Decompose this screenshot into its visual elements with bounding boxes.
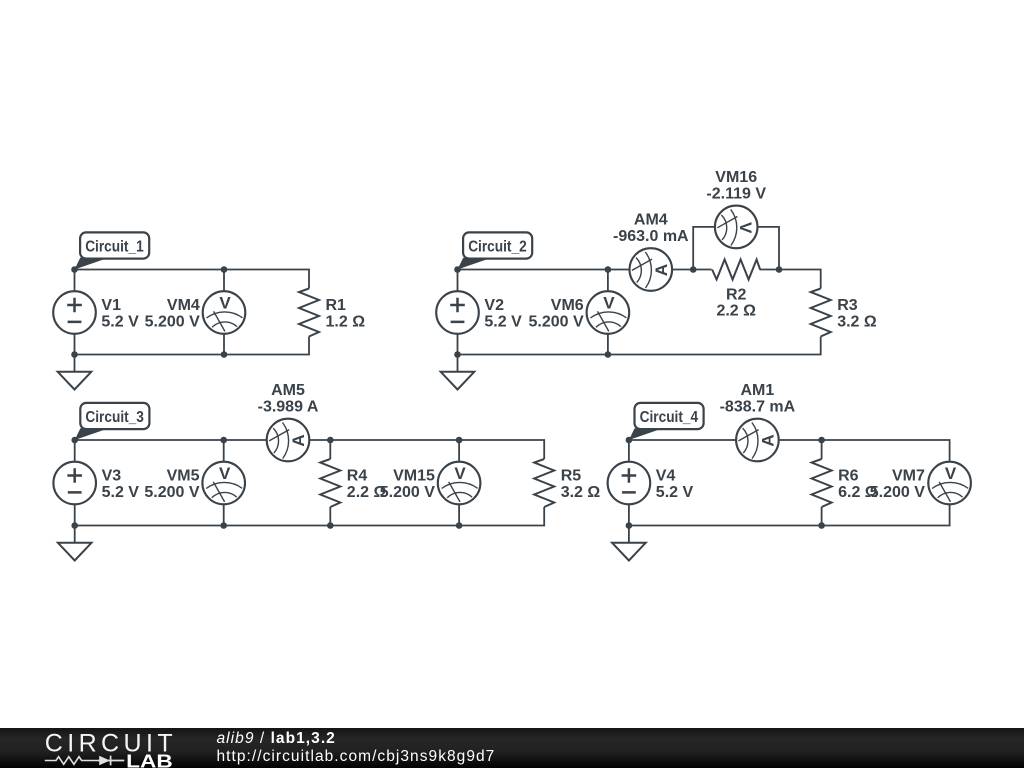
svg-text:V4: V4	[656, 468, 676, 485]
svg-text:VM5: VM5	[167, 468, 200, 485]
svg-text:R1: R1	[326, 297, 347, 314]
svg-text:R6: R6	[838, 468, 859, 485]
svg-text:5.2 V: 5.2 V	[101, 314, 139, 331]
svg-text:V2: V2	[484, 297, 504, 314]
svg-text:AM5: AM5	[271, 382, 305, 399]
svg-text:Circuit_1: Circuit_1	[85, 239, 144, 256]
svg-text:2.2 Ω: 2.2 Ω	[716, 303, 756, 320]
svg-text:R2: R2	[726, 287, 747, 304]
svg-text:-963.0 mA: -963.0 mA	[613, 228, 689, 245]
svg-text:1.2 Ω: 1.2 Ω	[326, 314, 366, 331]
svg-text:VM4: VM4	[167, 297, 200, 314]
svg-text:5.200 V: 5.200 V	[380, 484, 435, 501]
svg-text:-838.7 mA: -838.7 mA	[720, 398, 796, 415]
svg-text:-3.989 A: -3.989 A	[258, 398, 319, 415]
svg-text:Circuit_4: Circuit_4	[640, 409, 699, 426]
svg-text:AM4: AM4	[634, 212, 668, 229]
svg-text:-2.119 V: -2.119 V	[706, 186, 766, 203]
svg-text:VM16: VM16	[715, 169, 757, 186]
svg-text:3.2 Ω: 3.2 Ω	[561, 484, 601, 501]
svg-text:VM7: VM7	[892, 468, 925, 485]
svg-text:VM15: VM15	[393, 468, 435, 485]
svg-text:R4: R4	[347, 468, 368, 485]
svg-text:5.200 V: 5.200 V	[529, 314, 584, 331]
svg-text:LAB: LAB	[126, 750, 173, 768]
svg-text:Circuit_3: Circuit_3	[85, 409, 144, 426]
svg-text:5.200 V: 5.200 V	[145, 314, 200, 331]
svg-text:5.200 V: 5.200 V	[870, 484, 925, 501]
svg-text:5.2 V: 5.2 V	[484, 314, 522, 331]
svg-text:R3: R3	[837, 297, 858, 314]
svg-text:V3: V3	[102, 468, 122, 485]
svg-text:AM1: AM1	[741, 382, 775, 399]
svg-text:5.2 V: 5.2 V	[656, 484, 694, 501]
svg-text:R5: R5	[561, 468, 582, 485]
svg-text:VM6: VM6	[551, 297, 584, 314]
svg-text:V1: V1	[101, 297, 121, 314]
svg-text:5.200 V: 5.200 V	[144, 484, 199, 501]
svg-text:5.2 V: 5.2 V	[102, 484, 140, 501]
svg-text:Circuit_2: Circuit_2	[468, 239, 527, 256]
svg-text:3.2 Ω: 3.2 Ω	[837, 314, 877, 331]
